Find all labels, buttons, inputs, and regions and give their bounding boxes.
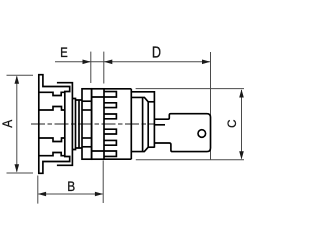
svg-text:A: A [0, 119, 15, 127]
svg-text:C: C [226, 120, 239, 128]
svg-text:B: B [67, 178, 75, 194]
svg-text:D: D [152, 44, 161, 61]
svg-text:E: E [60, 44, 68, 60]
